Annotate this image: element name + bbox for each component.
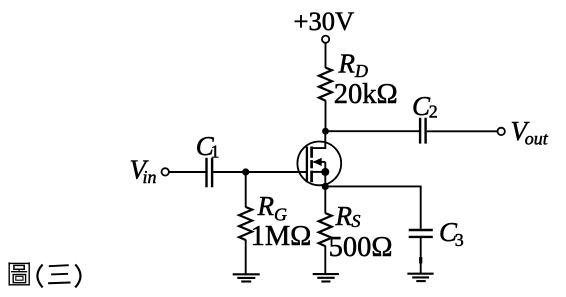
supply terminal +30V	[294, 6, 355, 43]
terminal Vin	[162, 168, 169, 175]
resistor RD	[319, 68, 332, 101]
三 bottom stroke	[48, 282, 70, 285]
open parenthesis	[37, 264, 42, 287]
svg-text:2: 2	[429, 102, 438, 122]
label C1	[196, 131, 220, 162]
transistor Q1 NMOS enhancement	[297, 133, 341, 186]
Q1 channel segment top	[310, 147, 313, 158]
Q1 gate bar	[306, 147, 308, 183]
三 top stroke	[49, 265, 69, 266]
wire source node to RS	[324, 186, 326, 213]
label RS	[335, 201, 361, 231]
svg-text:20kΩ: 20kΩ	[334, 79, 398, 110]
Q1 channel segment middle	[310, 160, 313, 168]
三 middle stroke	[51, 273, 68, 276]
ground (C3)	[407, 274, 433, 281]
node source junction	[322, 183, 329, 190]
Q1 source lead	[313, 171, 325, 173]
svg-text:+30V: +30V	[294, 6, 355, 36]
wire C3 to ground	[420, 238, 422, 274]
svg-text:R: R	[335, 201, 353, 231]
svg-text:3: 3	[455, 230, 464, 250]
close parenthesis	[75, 264, 80, 287]
wire RD to drain node	[325, 100, 327, 131]
svg-text:D: D	[354, 61, 368, 81]
圖 inner bottom box	[13, 275, 25, 283]
label C3	[439, 217, 464, 250]
svg-text:R: R	[257, 191, 275, 221]
wire source node to C3	[325, 186, 420, 228]
wire supply to RD	[325, 43, 327, 68]
terminal Vout	[498, 128, 505, 135]
resistor RS	[319, 213, 332, 246]
圖 innermost box	[16, 276, 23, 280]
Q1 source to node	[324, 172, 326, 187]
wire gate node to RG	[245, 172, 247, 207]
svg-text:R: R	[338, 49, 356, 79]
wire C1 to gate	[213, 171, 307, 173]
capacitor C3	[409, 230, 433, 237]
svg-text:in: in	[143, 167, 157, 187]
Q1 channel segment bottom	[310, 171, 313, 183]
figure caption 圖(三)	[9, 262, 80, 287]
圖 inner top small box	[14, 265, 24, 269]
wire RS to ground	[324, 246, 326, 274]
capacitor C2	[420, 118, 426, 144]
svg-text:out: out	[525, 129, 549, 149]
svg-text:S: S	[352, 211, 361, 231]
label Vout	[511, 116, 549, 149]
tick on C3 ground wire	[419, 257, 422, 264]
Q1 drain lead	[313, 133, 325, 148]
Q1 body-source tie dot	[321, 168, 329, 176]
svg-text:1MΩ: 1MΩ	[251, 221, 312, 252]
svg-text:500Ω: 500Ω	[329, 232, 393, 263]
wire RG to ground	[245, 240, 247, 275]
圖 middle horizontal stroke	[11, 271, 27, 273]
capacitor C1	[207, 158, 213, 188]
label Vin	[130, 155, 157, 188]
resistor RG	[239, 207, 252, 240]
node gate junction	[242, 168, 249, 175]
node drain junction	[322, 128, 329, 135]
wire C2 to Vout	[427, 130, 498, 132]
ground (RG)	[233, 274, 260, 281]
label RG	[257, 191, 288, 225]
svg-text:1: 1	[211, 142, 220, 162]
label C2	[412, 91, 438, 121]
ground (RS)	[313, 274, 339, 281]
wire Vin to C1	[169, 171, 206, 173]
圖 outer box	[9, 263, 29, 284]
label RD	[338, 49, 369, 82]
wire drain node to C2	[326, 130, 420, 132]
Q1 body circle	[297, 142, 341, 186]
Q1 body lead with arrow	[314, 161, 326, 163]
